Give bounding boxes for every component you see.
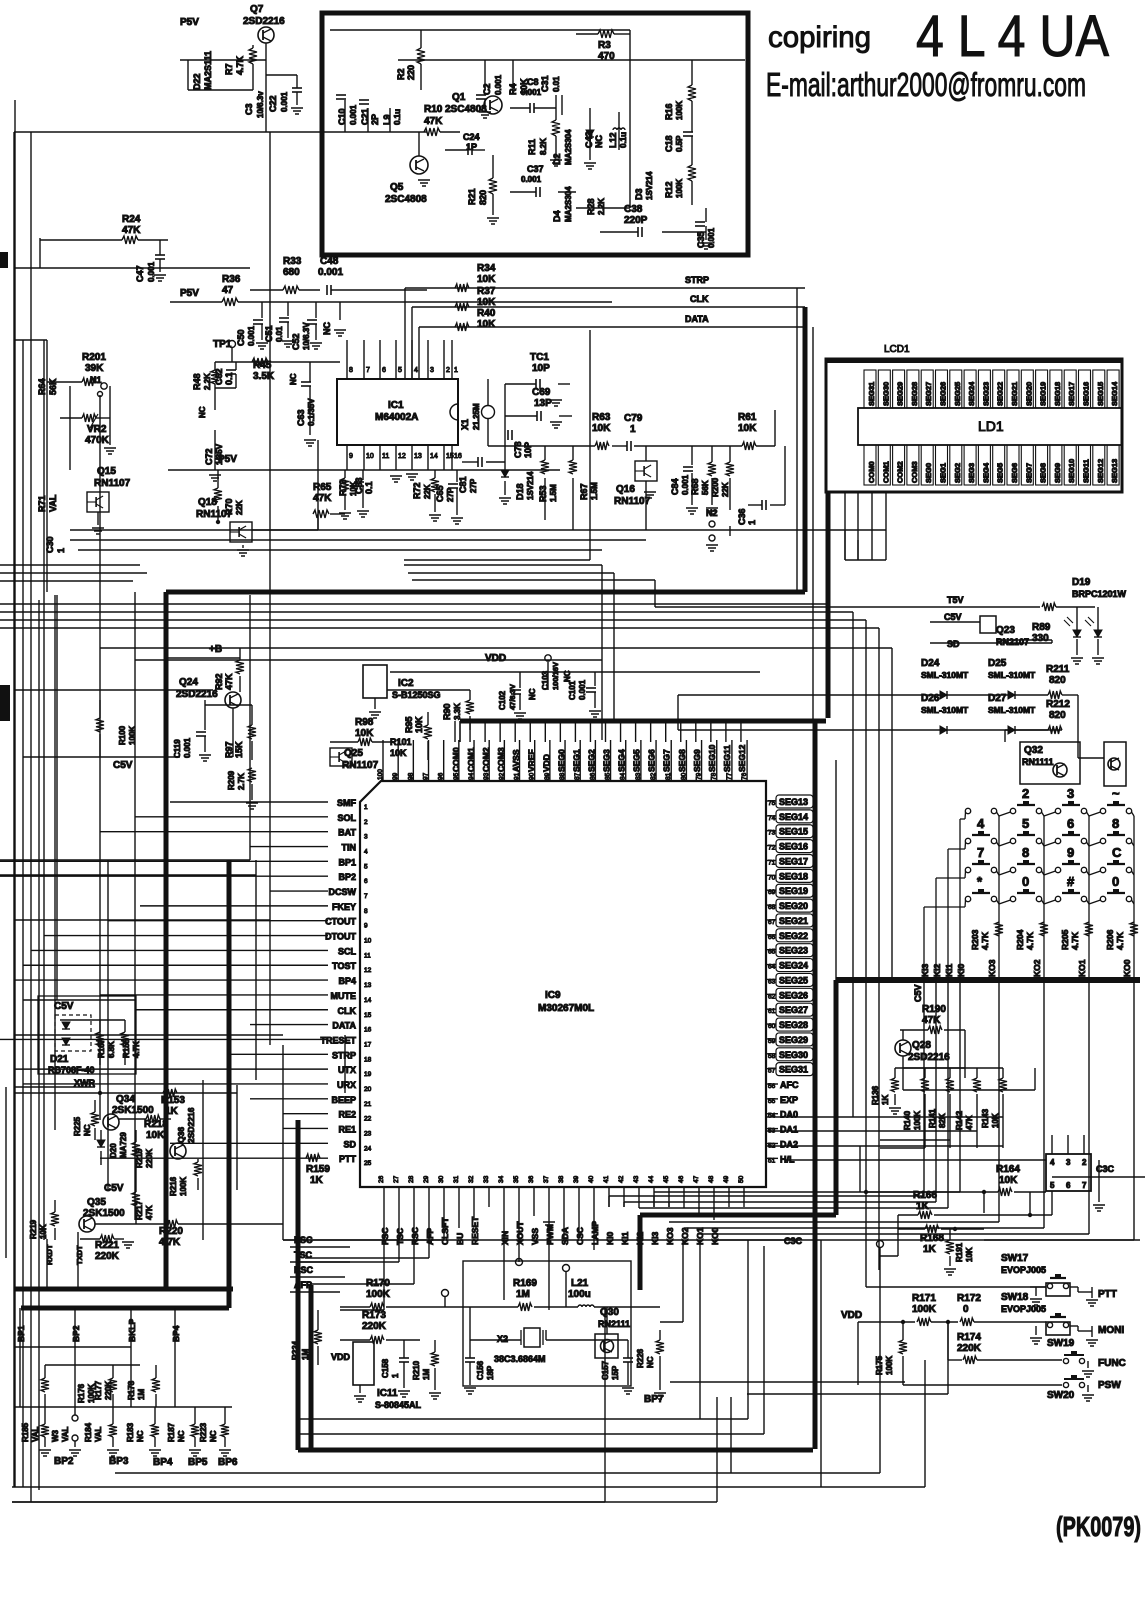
svg-text:BKLP: BKLP [127,1319,137,1342]
svg-text:47: 47 [693,1175,700,1183]
svg-text:BP1: BP1 [16,1325,26,1342]
svg-text:R140: R140 [903,1110,912,1130]
svg-text:BEEP: BEEP [331,1095,356,1105]
svg-text:41: 41 [603,1175,610,1183]
svg-text:SEG22: SEG22 [779,931,808,941]
svg-text:4.7K: 4.7K [1025,931,1035,950]
svg-text:1: 1 [364,804,368,811]
svg-text:IC9: IC9 [545,990,561,1001]
svg-text:R172: R172 [957,1293,981,1304]
svg-text:PTT: PTT [1098,1289,1117,1300]
svg-text:R211: R211 [1046,664,1070,675]
svg-text:86: 86 [589,772,596,780]
svg-text:47K: 47K [122,225,141,236]
svg-text:D2: D2 [552,153,562,165]
svg-text:100K: 100K [179,1177,188,1196]
svg-text:10: 10 [366,453,374,460]
svg-text:C78: C78 [513,441,523,458]
svg-text:10K: 10K [414,716,424,733]
svg-text:PSC: PSC [380,1228,390,1245]
svg-text:R10: R10 [424,104,443,115]
svg-text:SEG17: SEG17 [779,856,808,866]
svg-text:+B: +B [209,644,222,655]
svg-text:RSC: RSC [410,1227,420,1245]
svg-text:37: 37 [543,1175,550,1183]
svg-text:SEG13: SEG13 [1110,459,1119,483]
svg-text:84: 84 [620,772,627,780]
svg-text:SEG21: SEG21 [1010,382,1019,406]
svg-text:COM3: COM3 [910,461,919,483]
svg-text:NC: NC [594,135,604,148]
svg-text:EVOPJ005: EVOPJ005 [1001,1304,1046,1314]
svg-text:SW19: SW19 [1047,1338,1075,1349]
svg-text:E-mail:arthur2000@fromru.com: E-mail:arthur2000@fromru.com [766,66,1086,103]
svg-text:R61: R61 [738,412,757,423]
svg-text:R89: R89 [1032,622,1051,633]
svg-text:D25: D25 [988,658,1007,669]
svg-text:1: 1 [391,1373,400,1378]
svg-text:C2: C2 [482,83,492,95]
svg-text:1SV214: 1SV214 [645,171,654,200]
svg-text:SDA: SDA [560,1227,570,1245]
svg-text:CLK: CLK [690,294,709,304]
svg-text:AFP: AFP [425,1228,435,1245]
svg-text:S-80845AL: S-80845AL [375,1400,422,1410]
svg-text:98: 98 [407,772,414,780]
svg-text:C69: C69 [532,387,551,398]
svg-text:10K: 10K [991,1113,1000,1128]
svg-text:R212: R212 [1046,699,1070,710]
svg-text:DTOUT: DTOUT [325,932,356,942]
svg-text:R166: R166 [913,1190,937,1201]
svg-text:TC1: TC1 [530,352,549,363]
svg-text:100u: 100u [568,1289,591,1300]
svg-text:KI2: KI2 [635,1232,645,1246]
svg-text:Q7: Q7 [250,4,264,15]
svg-text:15: 15 [446,453,454,460]
svg-text:AFC: AFC [780,1080,799,1090]
svg-text:VAL: VAL [48,494,58,512]
svg-text:2P: 2P [370,114,380,125]
svg-text:COM3: COM3 [496,747,506,772]
svg-text:MONI: MONI [1098,1325,1124,1336]
svg-text:COM0: COM0 [451,747,461,772]
svg-text:CLK: CLK [338,1006,357,1016]
svg-text:R141: R141 [928,1108,937,1128]
svg-text:2SC4808: 2SC4808 [385,194,427,205]
svg-text:Q25: Q25 [344,748,363,759]
svg-text:1M: 1M [422,1369,431,1380]
svg-text:W3: W3 [51,1429,60,1442]
svg-text:RE2: RE2 [338,1110,356,1120]
svg-text:COM0: COM0 [867,461,876,483]
svg-text:0.001: 0.001 [578,679,587,700]
svg-text:47/6.3V: 47/6.3V [508,684,517,710]
svg-text:3.5K: 3.5K [253,371,275,382]
svg-text:C50: C50 [236,329,246,346]
svg-text:4.7K: 4.7K [980,931,990,950]
svg-text:99: 99 [392,772,399,780]
svg-text:NC: NC [177,1430,186,1442]
svg-text:~: ~ [1112,786,1120,801]
svg-text:56K: 56K [48,378,58,395]
svg-text:97: 97 [423,772,430,780]
svg-text:RB708F-40: RB708F-40 [48,1065,95,1075]
svg-text:4: 4 [977,816,985,831]
svg-text:#: # [1067,874,1075,889]
svg-text:KI0: KI0 [605,1232,615,1246]
svg-text:SEG28: SEG28 [779,1020,808,1030]
svg-text:R136: R136 [871,1085,880,1105]
svg-text:SEG29: SEG29 [896,382,905,406]
svg-text:R95: R95 [404,716,414,733]
svg-text:SCL: SCL [338,946,357,956]
svg-text:COM1: COM1 [466,747,476,772]
svg-text:C5V: C5V [54,1001,74,1012]
svg-text:NC: NC [198,406,207,418]
svg-text:SEG31: SEG31 [779,1065,808,1075]
svg-text:220: 220 [406,65,416,80]
svg-text:0: 0 [963,1304,969,1315]
svg-text:R36: R36 [222,274,241,285]
svg-text:BU: BU [455,1233,465,1245]
svg-text:7: 7 [1082,1181,1087,1190]
svg-text:C36: C36 [737,508,747,525]
svg-text:22K: 22K [721,482,730,497]
svg-text:87: 87 [574,772,581,780]
svg-text:C5V: C5V [913,984,923,1002]
svg-text:0.001: 0.001 [681,474,690,495]
svg-text:94: 94 [468,772,475,780]
svg-text:SD: SD [947,639,960,649]
svg-text:MA2S304: MA2S304 [564,129,573,165]
svg-text:SEG5: SEG5 [632,749,642,772]
svg-text:SEG23: SEG23 [981,382,990,406]
svg-text:SEG8: SEG8 [677,749,687,772]
svg-text:KI2: KI2 [932,964,942,978]
svg-text:78: 78 [711,772,718,780]
svg-text:SEG19: SEG19 [779,886,808,896]
svg-text:D22: D22 [192,73,202,90]
svg-text:R203: R203 [970,929,980,950]
svg-text:77: 77 [726,772,733,780]
svg-text:R101: R101 [390,737,412,747]
svg-text:35: 35 [513,1175,520,1183]
svg-text:10K: 10K [355,728,374,739]
svg-text:25: 25 [364,1160,372,1167]
svg-text:470K: 470K [85,435,110,446]
svg-text:BAT: BAT [338,828,356,838]
svg-text:0.001: 0.001 [318,267,343,278]
svg-text:46: 46 [678,1175,685,1183]
svg-text:15: 15 [364,1012,372,1019]
svg-text:10K: 10K [965,1247,974,1262]
svg-text:SEG20: SEG20 [1024,382,1033,406]
svg-text:DA0: DA0 [780,1110,798,1120]
svg-text:D27: D27 [988,693,1007,704]
svg-text:KI0: KI0 [956,964,966,978]
svg-text:S-B1250SG: S-B1250SG [392,690,441,700]
svg-text:89: 89 [544,772,551,780]
svg-text:1.5M: 1.5M [549,484,558,502]
svg-text:680: 680 [283,267,300,278]
svg-text:6.8K: 6.8K [107,1041,116,1058]
svg-text:STRP: STRP [332,1050,356,1060]
svg-text:10K: 10K [477,274,496,285]
svg-text:R92: R92 [214,673,224,690]
svg-text:SEG2: SEG2 [586,749,596,772]
svg-text:48: 48 [708,1175,715,1183]
svg-text:2.2K: 2.2K [203,373,212,390]
svg-text:BP4: BP4 [153,1457,173,1468]
svg-text:47K: 47K [922,1015,941,1026]
svg-text:NC: NC [646,1356,655,1368]
svg-text:D18: D18 [515,483,525,500]
svg-text:SEG9: SEG9 [692,749,702,772]
svg-text:R16: R16 [664,103,674,120]
svg-text:DATA: DATA [685,314,709,324]
svg-text:R142: R142 [955,1110,964,1130]
svg-text:MA2S304: MA2S304 [564,186,573,222]
svg-text:RN1107: RN1107 [614,496,651,507]
svg-text:4.7K: 4.7K [1070,931,1080,950]
svg-text:R178: R178 [127,1380,136,1400]
svg-text:R97: R97 [224,741,234,758]
svg-text:KO3: KO3 [665,1227,675,1245]
svg-text:5: 5 [398,367,402,374]
svg-text:10: 10 [364,938,372,945]
svg-text:SEG3: SEG3 [602,749,612,772]
svg-text:R98: R98 [355,717,374,728]
svg-text:KI3: KI3 [920,964,930,978]
svg-text:(PK0079): (PK0079) [1056,1511,1141,1542]
svg-text:SML-310MT: SML-310MT [988,670,1036,680]
svg-text:D19: D19 [1072,577,1091,588]
svg-text:LAMP: LAMP [590,1221,600,1245]
svg-text:0.001: 0.001 [247,325,256,346]
svg-text:SEG3: SEG3 [967,463,976,483]
svg-text:R170: R170 [366,1278,390,1289]
svg-text:C48: C48 [320,256,339,267]
svg-text:C24: C24 [463,132,480,142]
svg-text:30: 30 [438,1175,445,1183]
svg-text:13: 13 [414,453,422,460]
svg-text:Q5: Q5 [390,182,404,193]
svg-text:SEG7: SEG7 [662,749,672,772]
svg-text:40: 40 [588,1175,595,1183]
svg-text:SEG25: SEG25 [953,382,962,406]
svg-text:0.1/35V: 0.1/35V [307,398,316,426]
svg-text:47K: 47K [313,493,332,504]
svg-text:36: 36 [528,1175,535,1183]
svg-text:9: 9 [1067,845,1074,860]
svg-text:D4: D4 [552,210,562,222]
svg-text:SEG12: SEG12 [737,744,747,772]
svg-text:2SD2216: 2SD2216 [176,689,218,700]
svg-text:4 L 4 UA: 4 L 4 UA [916,4,1109,69]
svg-text:100K: 100K [912,1304,937,1315]
svg-text:220K: 220K [957,1343,982,1354]
svg-text:9: 9 [364,923,368,930]
svg-text:38: 38 [558,1175,565,1183]
svg-text:KO0: KO0 [1122,959,1132,977]
svg-text:M64002A: M64002A [375,412,418,423]
svg-text:2: 2 [1022,786,1029,801]
svg-text:10K: 10K [738,423,757,434]
svg-text:DA1: DA1 [780,1125,798,1135]
svg-text:6: 6 [1066,1181,1071,1190]
svg-text:IC1: IC1 [388,400,404,411]
svg-text:43: 43 [633,1175,640,1183]
svg-text:76: 76 [741,772,748,780]
svg-text:R90: R90 [442,703,452,720]
svg-text:220K: 220K [95,1251,120,1262]
svg-text:SEG12: SEG12 [1096,459,1105,483]
svg-text:44: 44 [648,1175,655,1183]
svg-text:79: 79 [696,772,703,780]
svg-text:34: 34 [498,1175,505,1183]
svg-text:1: 1 [56,548,66,553]
svg-text:21: 21 [364,1101,372,1108]
svg-text:R72: R72 [412,482,422,499]
svg-text:7: 7 [364,893,368,900]
svg-text:56K: 56K [701,480,710,495]
svg-text:C38: C38 [624,204,643,215]
svg-text:PTT: PTT [339,1154,357,1164]
svg-text:SW17: SW17 [1001,1253,1029,1264]
svg-text:11: 11 [382,453,389,460]
svg-text:N2: N2 [706,508,718,518]
svg-text:SEG30: SEG30 [881,382,890,406]
svg-text:15P: 15P [611,1365,620,1380]
svg-text:C101: C101 [568,680,577,700]
svg-text:0.001: 0.001 [147,261,156,282]
svg-text:RN2107: RN2107 [996,637,1029,647]
svg-text:BP5: BP5 [188,1457,208,1468]
svg-text:4.7K: 4.7K [235,55,245,75]
svg-text:NC: NC [209,1430,218,1442]
svg-text:IC11: IC11 [377,1388,398,1399]
svg-text:23: 23 [364,1130,372,1137]
svg-text:5: 5 [1050,1181,1055,1190]
svg-text:R21: R21 [467,188,477,205]
svg-text:220K: 220K [145,1149,154,1168]
svg-text:R206: R206 [1105,929,1115,950]
svg-text:SEG18: SEG18 [1053,382,1062,406]
svg-text:CTOUT: CTOUT [325,917,356,927]
svg-text:KO2: KO2 [680,1227,690,1245]
svg-text:BP4: BP4 [338,976,356,986]
svg-text:38C3.6864M: 38C3.6864M [494,1354,546,1364]
svg-text:18P: 18P [486,1365,495,1380]
svg-text:SEG30: SEG30 [779,1050,808,1060]
svg-text:VAL: VAL [94,1426,103,1442]
svg-text:IC2: IC2 [398,678,414,689]
svg-text:50: 50 [738,1175,745,1183]
svg-text:2SD2216: 2SD2216 [243,16,285,27]
svg-text:R67: R67 [579,483,589,500]
svg-text:R37: R37 [477,286,496,297]
svg-text:RN1111: RN1111 [1022,757,1054,767]
svg-text:28: 28 [408,1175,415,1183]
svg-text:VAL: VAL [31,1426,40,1442]
svg-text:0.001: 0.001 [707,227,716,248]
svg-text:C31: C31 [540,75,550,92]
svg-text:Q16: Q16 [616,484,635,495]
svg-text:C79: C79 [624,413,643,424]
svg-text:CSC: CSC [575,1227,585,1245]
svg-text:18: 18 [364,1056,372,1063]
svg-text:820: 820 [1049,675,1066,686]
svg-text:BP2: BP2 [338,872,356,882]
svg-text:BP1: BP1 [338,857,356,867]
svg-text:0.01: 0.01 [275,326,284,342]
svg-text:SEG14: SEG14 [779,812,808,822]
svg-text:PSW: PSW [1098,1380,1121,1391]
svg-text:4.7K: 4.7K [159,1237,181,1248]
svg-text:Q34: Q34 [116,1094,135,1105]
svg-text:22K: 22K [423,484,432,499]
svg-text:R185: R185 [21,1422,30,1442]
svg-text:R201: R201 [82,352,106,363]
svg-text:4.7K: 4.7K [132,1041,141,1058]
svg-text:SEG10: SEG10 [1067,459,1076,483]
svg-text:22K: 22K [235,500,244,515]
svg-text:R200: R200 [711,477,720,497]
svg-text:29: 29 [423,1175,430,1183]
svg-text:SEG10: SEG10 [707,744,717,772]
svg-text:6: 6 [382,367,386,374]
svg-text:Q30: Q30 [600,1307,619,1318]
svg-text:R210: R210 [412,1360,421,1380]
svg-text:R164: R164 [996,1164,1020,1175]
svg-text:27P: 27P [446,487,455,502]
svg-text:LD1: LD1 [978,418,1004,434]
svg-text:Q28: Q28 [912,1040,931,1051]
svg-text:0: 0 [1022,874,1029,889]
svg-text:12: 12 [398,453,406,460]
svg-text:Q23: Q23 [996,625,1015,636]
svg-text:0.001: 0.001 [521,88,542,97]
svg-text:4: 4 [414,367,418,374]
svg-text:C84: C84 [670,478,680,495]
svg-text:NC: NC [322,322,332,335]
svg-text:SEG27: SEG27 [779,1005,808,1015]
svg-text:C119: C119 [173,739,182,758]
svg-text:80: 80 [680,772,687,780]
svg-text:C81: C81 [458,476,468,493]
svg-text:BRPC1201W: BRPC1201W [1072,589,1127,599]
svg-text:R64: R64 [37,378,47,395]
svg-text:R11: R11 [527,139,537,155]
svg-text:SEG21: SEG21 [779,916,808,926]
svg-text:D24: D24 [921,658,940,669]
svg-text:SML-310MT: SML-310MT [988,705,1036,715]
svg-text:SEG17: SEG17 [1067,382,1076,406]
svg-text:3: 3 [430,367,434,374]
svg-text:KI1: KI1 [944,964,954,978]
svg-text:R204: R204 [1015,929,1025,950]
svg-text:P5V: P5V [180,288,199,299]
svg-text:R45: R45 [253,360,272,371]
svg-text:45: 45 [663,1175,670,1183]
svg-text:R219: R219 [29,1219,38,1239]
svg-text:4.7K: 4.7K [1115,931,1125,950]
svg-text:SEG1: SEG1 [939,463,948,483]
svg-text:4: 4 [364,849,368,856]
svg-text:10P: 10P [523,442,533,458]
svg-text:SEG14: SEG14 [1110,381,1119,406]
